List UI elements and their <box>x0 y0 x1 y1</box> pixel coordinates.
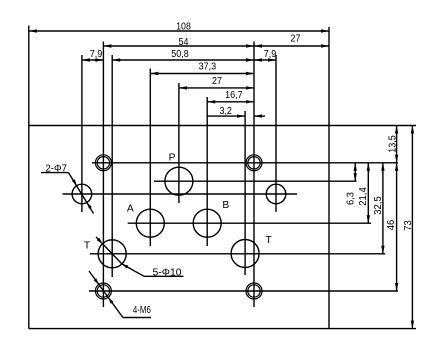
svg-text:54: 54 <box>179 37 189 48</box>
svg-text:21,4: 21,4 <box>358 187 369 206</box>
svg-text:27: 27 <box>212 76 222 87</box>
svg-text:4-M6: 4-M6 <box>133 305 151 316</box>
svg-text:27: 27 <box>291 34 301 45</box>
svg-text:13,5: 13,5 <box>387 135 398 153</box>
svg-text:A: A <box>127 204 134 215</box>
svg-text:6,3: 6,3 <box>345 192 356 205</box>
svg-text:3,2: 3,2 <box>219 106 232 117</box>
svg-text:16,7: 16,7 <box>225 90 243 101</box>
svg-text:P: P <box>169 153 176 164</box>
svg-text:B: B <box>222 200 229 211</box>
svg-text:46: 46 <box>386 219 397 230</box>
svg-text:T: T <box>84 241 91 252</box>
svg-text:108: 108 <box>176 21 191 32</box>
svg-text:73: 73 <box>403 220 414 231</box>
svg-text:32,5: 32,5 <box>373 196 384 215</box>
svg-text:50,8: 50,8 <box>171 49 189 60</box>
svg-text:7,9: 7,9 <box>90 49 103 60</box>
svg-text:T: T <box>266 235 273 246</box>
svg-text:37,3: 37,3 <box>199 62 217 73</box>
svg-text:7,9: 7,9 <box>264 49 277 60</box>
